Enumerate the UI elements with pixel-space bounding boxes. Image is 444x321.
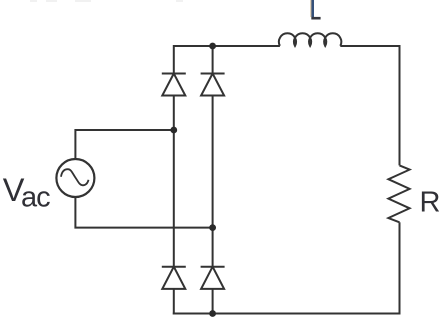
svg-text:ac: ac bbox=[21, 182, 50, 214]
svg-text:R: R bbox=[420, 186, 441, 218]
